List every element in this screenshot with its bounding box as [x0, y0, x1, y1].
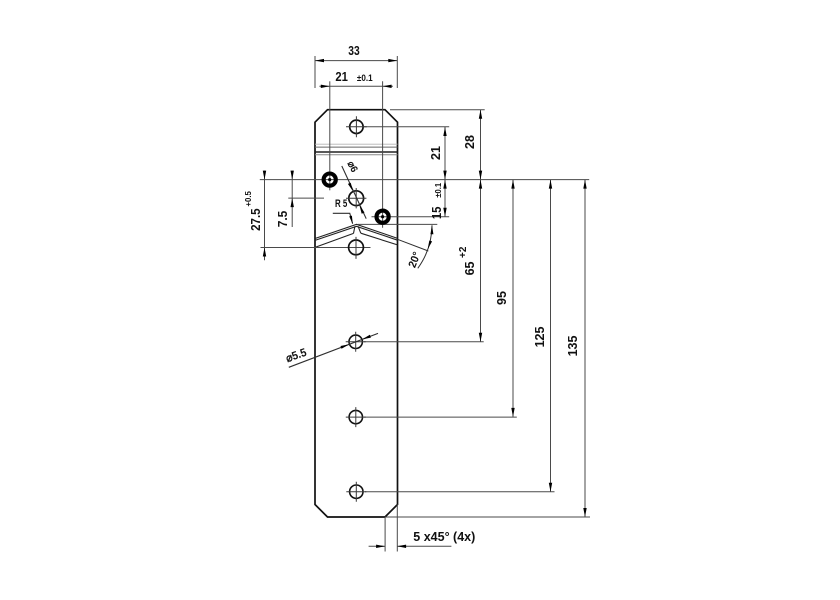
- arrows dim 28: [479, 110, 482, 180]
- extension line right hole to dim 15: [372, 216, 450, 218]
- extension line 33 right: [396, 56, 398, 88]
- bend chevron upper line B: [315, 226, 398, 240]
- leader phi6: [342, 166, 366, 219]
- hole phi5.5 crosshair: [346, 332, 366, 352]
- arrows dim 95: [511, 180, 514, 417]
- bend lower-right edge: [361, 233, 398, 245]
- label 21 ±0.1 top: [336, 70, 373, 84]
- centerline through left pressed hole: [329, 81, 331, 190]
- label 21 right: [429, 146, 443, 160]
- extension line 33 left: [314, 56, 316, 88]
- extension line chamfer right: [396, 505, 398, 552]
- left pressed-in pin hole: [324, 174, 336, 186]
- hole 6 crosshair: [346, 482, 366, 502]
- label phi5.5: [284, 345, 308, 365]
- label 65 +2: [460, 246, 476, 275]
- hole 6: [350, 485, 363, 498]
- 20 degree arc: [418, 225, 432, 268]
- label 95: [495, 291, 509, 305]
- extension line chamfer left: [384, 517, 386, 552]
- arrows dim 27.5 (outside): [263, 171, 266, 257]
- band line 2: [315, 146, 398, 148]
- leader phi5.5: [289, 333, 378, 367]
- hole phi5.5: [349, 335, 362, 348]
- dim line 135: [584, 180, 586, 517]
- leader R5: [333, 213, 353, 223]
- angle reference horizontal line: [358, 223, 438, 225]
- band line 4: [315, 154, 398, 156]
- arrows dim chamfer: [376, 545, 406, 548]
- right pressed-in pin hole: [377, 211, 389, 223]
- label 15 ±0.1: [430, 182, 444, 218]
- extension line hole4 to dim 65: [364, 341, 484, 343]
- arrows dim 21 top (outside): [321, 85, 392, 88]
- datum extension line through left hole center: [260, 179, 589, 181]
- dim line chamfer left part: [369, 545, 386, 547]
- extension line plate top to dim 28: [390, 109, 485, 111]
- hole 5 crosshair: [346, 407, 366, 427]
- arrows dim 65: [479, 180, 482, 342]
- dim line 125: [550, 180, 552, 492]
- arrows dim 135: [583, 180, 586, 517]
- center hole crosshair: [346, 188, 366, 208]
- hole 5: [349, 410, 362, 423]
- 20 degree leader line extension: [398, 239, 429, 251]
- center hole phi6: [349, 191, 364, 206]
- label 33: [348, 44, 359, 58]
- extension line dim 7.5: [288, 197, 324, 199]
- dim line 21/15 right: [444, 127, 446, 217]
- dim line 95: [512, 180, 514, 417]
- label 7.5: [276, 211, 290, 228]
- bend apex trapezoid right side: [358, 226, 361, 233]
- bend chevron upper line A: [315, 224, 398, 238]
- extension line hole5 to dim 95: [364, 416, 517, 418]
- lower middle hole phi6: [349, 240, 364, 255]
- lower middle hole crosshair: [355, 237, 357, 259]
- dim line 7.5: [291, 171, 293, 227]
- extension line plate bottom to dim 135: [385, 516, 590, 518]
- dim line 28/65: [480, 110, 482, 342]
- top hole: [350, 120, 363, 133]
- label 5x45: [413, 530, 475, 544]
- dim line 33: [315, 60, 397, 62]
- dim line 27.5: [264, 171, 266, 261]
- extension line top hole to dim 21: [364, 126, 449, 128]
- dim line chamfer right part: [397, 545, 451, 547]
- label R5: [335, 198, 347, 210]
- band line 3: [315, 151, 398, 153]
- arrows dim 7.5 (outside): [291, 171, 294, 208]
- bend lower-left edge: [315, 233, 354, 247]
- arc arrow bottom: [428, 241, 432, 250]
- label 125: [533, 326, 547, 347]
- extension line dim 27.5: [261, 247, 371, 249]
- arrows dim 21 right: [443, 127, 446, 180]
- label 135: [566, 336, 580, 357]
- dim line 21 top: [319, 85, 393, 87]
- plate outline: [315, 110, 398, 517]
- label 28: [463, 135, 477, 149]
- label phi6: [345, 160, 360, 175]
- extension line hole6 to dim 125: [365, 491, 555, 493]
- arrows dim 15: [443, 180, 446, 217]
- arc arrow top: [430, 225, 433, 234]
- band line 1: [315, 143, 398, 145]
- arrows dim 125: [549, 180, 552, 492]
- top hole crosshair: [346, 116, 367, 137]
- label 27.5 +0.5: [246, 191, 262, 231]
- label 20 degrees: [406, 250, 423, 269]
- centerline through right pressed hole: [382, 81, 384, 228]
- arrows dim 33: [315, 59, 397, 62]
- bend apex trapezoid left side: [354, 226, 355, 233]
